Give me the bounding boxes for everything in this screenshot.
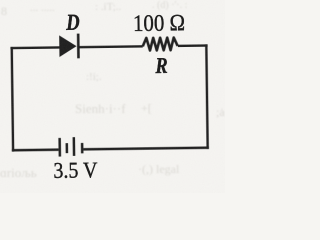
resistor R zigzag xyxy=(143,37,178,50)
wire left vertical xyxy=(12,47,13,152)
diode D anode triangle xyxy=(59,35,76,57)
wire right vertical xyxy=(206,44,207,149)
wire bottom-left segment xyxy=(12,148,59,151)
battery cell plate long 1 xyxy=(58,138,61,157)
wire top-left segment xyxy=(11,46,61,49)
battery cell plate short 2 xyxy=(81,143,84,153)
paper grain xyxy=(0,0,225,193)
battery cell plate long 2 xyxy=(73,137,76,156)
wire top-middle segment xyxy=(78,45,142,48)
diode D cathode bar xyxy=(77,34,80,59)
wire top-right segment xyxy=(178,44,208,47)
battery cell plate short 1 xyxy=(66,143,69,153)
wire bottom-right segment xyxy=(83,148,209,150)
faint bleed-through background text xyxy=(0,0,225,180)
